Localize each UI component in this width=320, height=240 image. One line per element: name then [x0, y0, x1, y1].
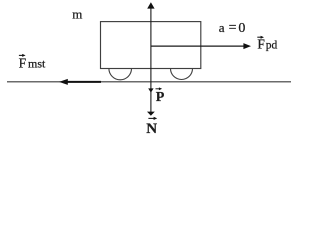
svg-text:F: F: [19, 56, 27, 71]
svg-text:0: 0: [238, 21, 245, 36]
svg-text:m: m: [72, 7, 82, 22]
svg-text:N: N: [146, 121, 157, 137]
svg-text:a: a: [219, 20, 225, 35]
svg-text:P: P: [156, 90, 165, 105]
svg-text:F: F: [257, 36, 265, 51]
svg-text:pd: pd: [266, 40, 278, 52]
svg-text:=: =: [229, 21, 237, 36]
svg-text:mst: mst: [28, 57, 46, 71]
